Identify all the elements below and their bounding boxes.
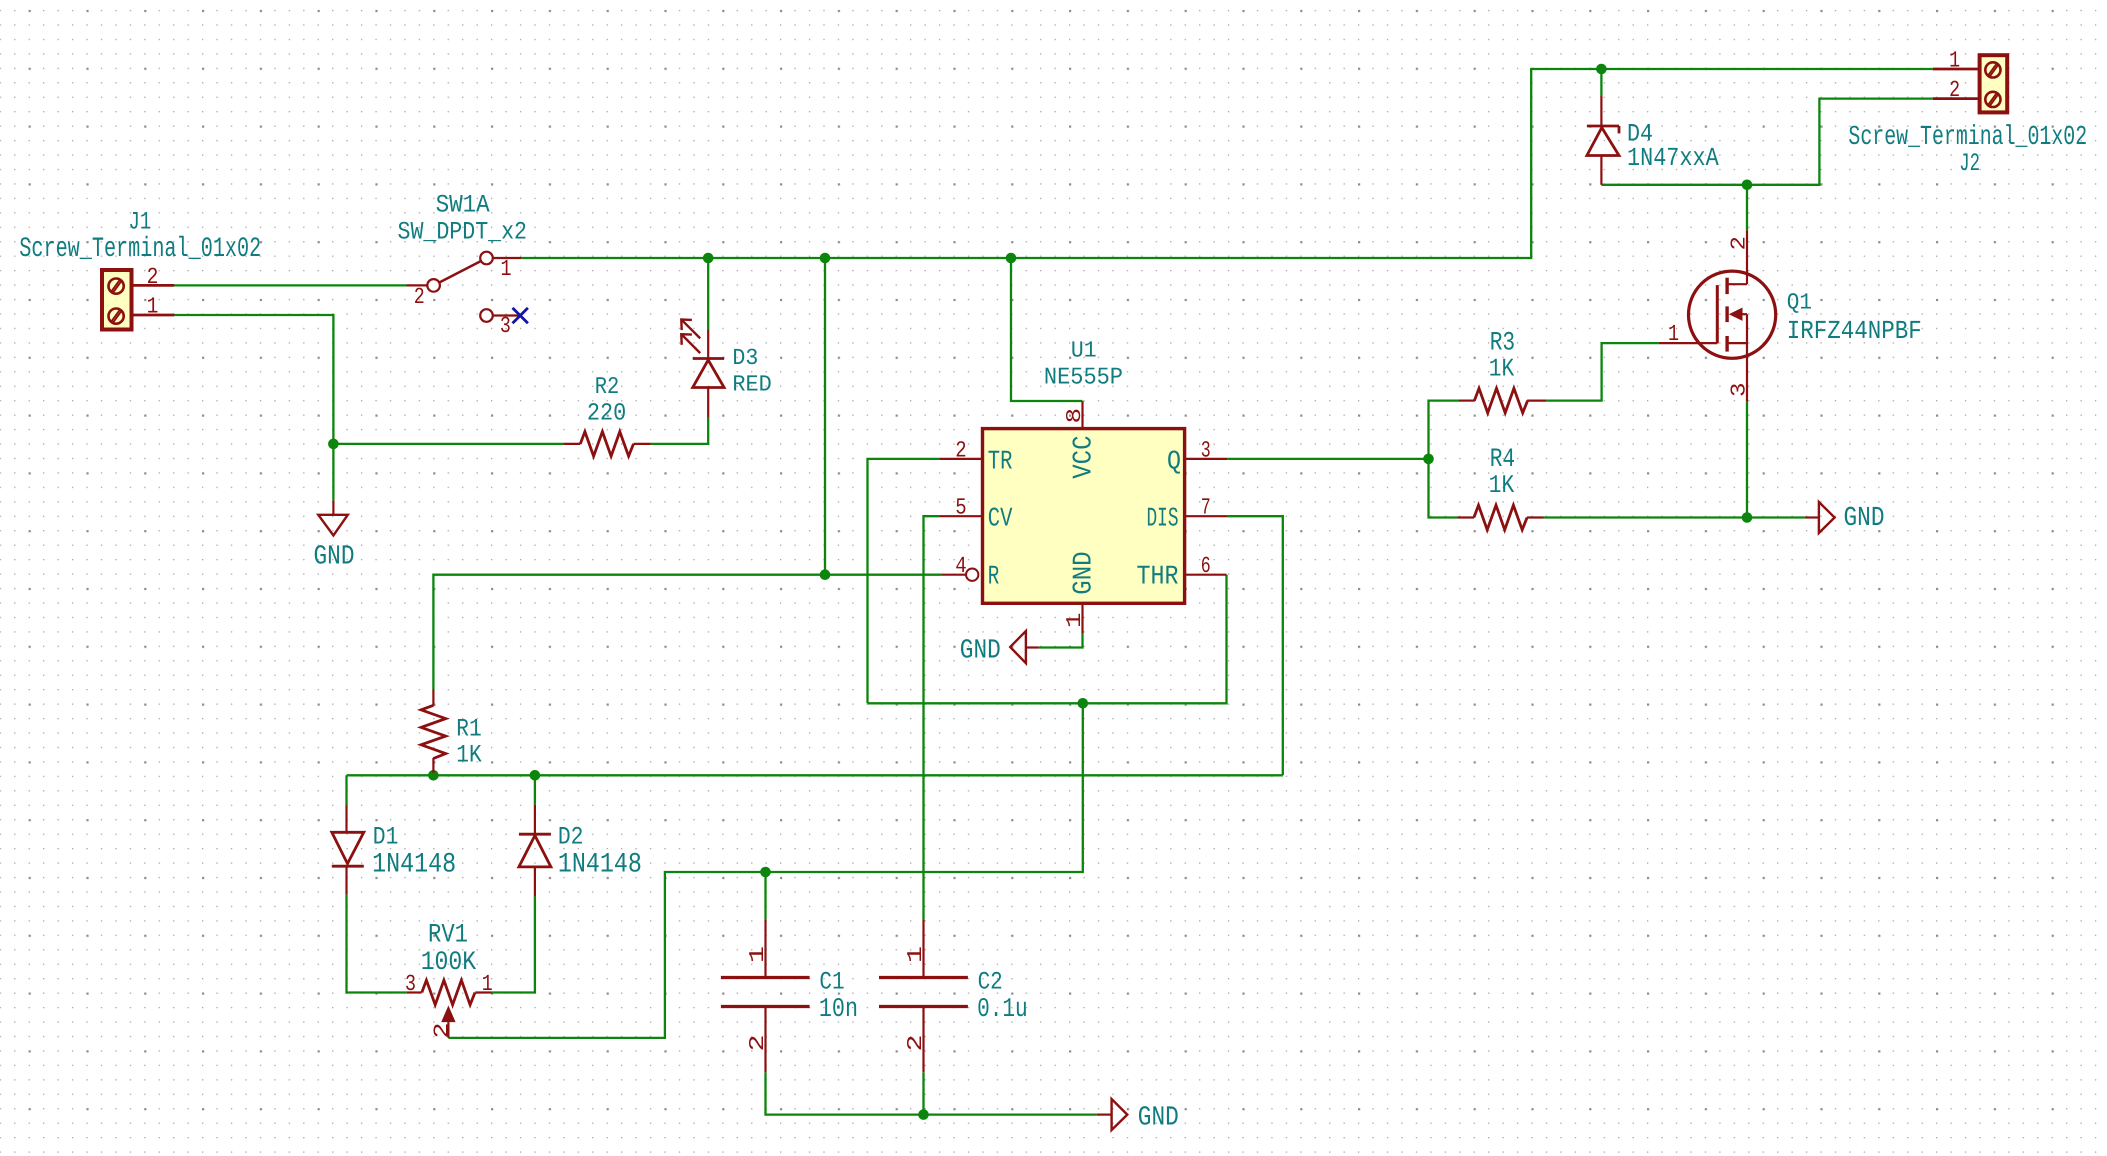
node junction bus-VCC bbox=[1006, 253, 1017, 264]
svg-text:2: 2 bbox=[905, 1035, 928, 1052]
resistor R2 bbox=[563, 432, 650, 457]
resistor R1 bbox=[421, 689, 446, 773]
svg-text:TR: TR bbox=[988, 447, 1013, 477]
wire C1 top leg bbox=[764, 872, 766, 920]
ground GND at Q1 source bbox=[1805, 502, 1835, 533]
svg-text:NE555P: NE555P bbox=[1044, 365, 1123, 392]
wire D1 top leg bbox=[345, 775, 347, 805]
svg-text:U1: U1 bbox=[1071, 338, 1097, 364]
wire R pin 4 to R1 leg bbox=[433, 575, 941, 689]
node junction C2 bottom bbox=[918, 1109, 929, 1120]
svg-text:D3: D3 bbox=[732, 345, 758, 371]
svg-text:1: 1 bbox=[1949, 48, 1960, 74]
wire R2 node down to GND bbox=[332, 444, 334, 500]
svg-text:5: 5 bbox=[955, 495, 966, 521]
node junction bus-D3 bbox=[703, 253, 714, 264]
svg-text:RED: RED bbox=[732, 371, 771, 397]
svg-text:8: 8 bbox=[1064, 408, 1087, 424]
screw terminal J1 bbox=[102, 270, 174, 330]
wire IC GND pin 1 bbox=[1039, 633, 1083, 647]
node junction D4 anode/Q1 drain bbox=[1742, 180, 1753, 191]
zener diode D4 bbox=[1587, 95, 1619, 184]
svg-text:Screw_Terminal_01x02: Screw_Terminal_01x02 bbox=[19, 234, 261, 265]
ground GND at C1/C2 bbox=[1097, 1099, 1128, 1130]
svg-text:C2: C2 bbox=[978, 968, 1003, 997]
svg-text:1: 1 bbox=[747, 946, 770, 963]
node junction Q1 source/R4 bbox=[1742, 512, 1753, 523]
wire R2 right to D3 anode bbox=[651, 417, 709, 444]
svg-text:D2: D2 bbox=[558, 823, 584, 852]
wire node down to R4 bbox=[1429, 459, 1458, 518]
svg-text:R: R bbox=[988, 562, 1000, 592]
svg-text:3: 3 bbox=[500, 313, 511, 339]
svg-text:2: 2 bbox=[747, 1035, 770, 1052]
svg-text:1N4148: 1N4148 bbox=[372, 849, 456, 880]
svg-text:1K: 1K bbox=[1489, 471, 1515, 500]
svg-text:R3: R3 bbox=[1490, 328, 1515, 358]
svg-text:RV1: RV1 bbox=[428, 920, 468, 950]
svg-text:1: 1 bbox=[482, 971, 493, 997]
U1 pin 1 GND bbox=[1081, 603, 1083, 633]
U1 pin 2 TR bbox=[939, 458, 982, 460]
node junction Rpin wire bbox=[820, 569, 831, 580]
wire DIS pin 7 down bbox=[1227, 516, 1283, 775]
U1 pin 3 Q bbox=[1185, 458, 1228, 460]
wire J1 pin2 to SW1A common bbox=[173, 284, 406, 286]
svg-text:10n: 10n bbox=[819, 995, 858, 1025]
svg-text:SW_DPDT_x2: SW_DPDT_x2 bbox=[398, 218, 528, 247]
wire C2 bottom leg bbox=[922, 1072, 924, 1114]
wire bus down to R pin net bbox=[824, 258, 826, 575]
wire Q1 drain up bbox=[1746, 185, 1748, 231]
svg-text:Q1: Q1 bbox=[1787, 290, 1812, 316]
svg-text:1: 1 bbox=[1668, 321, 1679, 347]
wire R1/D1/D2/DIS net bbox=[347, 774, 1283, 776]
svg-text:CV: CV bbox=[988, 505, 1013, 535]
wire D3 cathode to bus bbox=[707, 258, 709, 329]
svg-text:2: 2 bbox=[432, 1023, 455, 1039]
svg-text:IRFZ44NPBF: IRFZ44NPBF bbox=[1787, 316, 1922, 346]
resistor R4 bbox=[1458, 505, 1544, 530]
svg-text:1: 1 bbox=[147, 294, 159, 320]
wire D2 bottom to RV1 pin1 bbox=[492, 896, 535, 992]
wire Q pin 3 to R3/R4 node bbox=[1227, 458, 1428, 460]
node junction C1 top bbox=[760, 867, 771, 878]
wire J1 pin1 down to R2 node bbox=[173, 315, 333, 444]
svg-text:3: 3 bbox=[1729, 383, 1752, 398]
wire node up to R3 bbox=[1429, 401, 1460, 459]
svg-text:THR: THR bbox=[1137, 562, 1179, 592]
wire R3 to Q1 gate bbox=[1546, 343, 1659, 401]
svg-text:1K: 1K bbox=[1489, 355, 1515, 384]
node junction D4 top bbox=[1596, 64, 1607, 75]
svg-text:2: 2 bbox=[955, 437, 966, 463]
node junction bus-Rpin bbox=[820, 253, 831, 264]
svg-text:C1: C1 bbox=[819, 968, 844, 997]
svg-text:GND: GND bbox=[960, 636, 1001, 667]
LED D3 bbox=[681, 320, 724, 418]
svg-text:GND: GND bbox=[1844, 503, 1885, 534]
svg-text:1N47xxA: 1N47xxA bbox=[1627, 143, 1719, 173]
wire D1 bottom to RV1 pin3 bbox=[347, 894, 407, 992]
U1 pin 4 R bbox=[941, 569, 978, 581]
wire main bus SW1A to J2 pin1 bbox=[521, 69, 1933, 258]
switch SW1A bbox=[407, 252, 522, 322]
U1 pin 7 DIS bbox=[1185, 515, 1228, 517]
wire R2 left bbox=[333, 443, 563, 445]
svg-text:DIS: DIS bbox=[1147, 505, 1179, 535]
potentiometer RV1 bbox=[407, 980, 492, 1038]
wire D4 anode to J2 pin2 bbox=[1601, 99, 1933, 185]
svg-text:GND: GND bbox=[314, 542, 355, 573]
svg-text:6: 6 bbox=[1201, 553, 1211, 579]
node junction TR/THR/C1 bbox=[1078, 698, 1089, 709]
svg-text:R4: R4 bbox=[1490, 444, 1515, 474]
svg-text:Q: Q bbox=[1167, 447, 1181, 477]
wire bus to VCC pin 8 bbox=[1011, 258, 1083, 401]
svg-text:1: 1 bbox=[905, 946, 928, 963]
resistor R3 bbox=[1459, 388, 1546, 413]
svg-text:220: 220 bbox=[587, 401, 626, 428]
svg-text:100K: 100K bbox=[421, 947, 477, 977]
wire Q1 source down bbox=[1746, 402, 1748, 518]
svg-text:1N4148: 1N4148 bbox=[558, 849, 642, 880]
ground GND at IC pin1 bbox=[1010, 631, 1039, 663]
svg-text:GND: GND bbox=[1138, 1103, 1179, 1134]
ground GND at J1 bbox=[318, 500, 348, 535]
svg-text:R1: R1 bbox=[456, 715, 481, 744]
U1 pin 6 THR bbox=[1185, 574, 1227, 576]
svg-text:SW1A: SW1A bbox=[436, 191, 490, 220]
svg-text:1: 1 bbox=[501, 256, 512, 282]
svg-text:3: 3 bbox=[405, 971, 416, 997]
svg-text:GND: GND bbox=[1070, 551, 1100, 594]
svg-text:2: 2 bbox=[414, 284, 425, 310]
wire D4 cathode up bbox=[1600, 69, 1602, 95]
wire TR pin 2 loop bbox=[868, 459, 940, 703]
svg-text:J2: J2 bbox=[1959, 149, 1980, 178]
svg-text:1K: 1K bbox=[456, 741, 481, 770]
transistor Q1 bbox=[1659, 230, 1776, 401]
node junction R1 bottom bbox=[428, 770, 439, 781]
wire CV pin 5 down to C2 bbox=[924, 516, 940, 919]
wire R4 right to GND bbox=[1544, 516, 1805, 518]
node junction Q output bbox=[1423, 454, 1434, 465]
screw terminal J2 bbox=[1933, 55, 2007, 112]
U1 pin 5 CV bbox=[939, 515, 982, 517]
svg-text:VCC: VCC bbox=[1070, 436, 1100, 479]
wire C1 bottom to GND bbox=[766, 1072, 1097, 1114]
svg-text:7: 7 bbox=[1201, 495, 1211, 521]
svg-text:1: 1 bbox=[1064, 613, 1087, 629]
wire TR/THR node down to RV1 wiper bbox=[448, 703, 1082, 1038]
wire D2 top leg bbox=[534, 775, 536, 804]
svg-text:D1: D1 bbox=[373, 823, 399, 852]
op-amp U1 body bbox=[983, 429, 1185, 604]
svg-text:2: 2 bbox=[147, 264, 159, 290]
svg-text:R2: R2 bbox=[595, 374, 620, 401]
svg-text:4: 4 bbox=[955, 553, 966, 579]
svg-text:3: 3 bbox=[1201, 437, 1211, 463]
node junction D2 top bbox=[530, 770, 541, 781]
svg-text:2: 2 bbox=[1729, 236, 1752, 251]
diode D2 bbox=[519, 805, 551, 897]
capacitor C1 bbox=[721, 920, 810, 1073]
U1 pin 8 VCC bbox=[1081, 401, 1083, 429]
svg-text:J1: J1 bbox=[129, 207, 152, 236]
svg-text:0.1u: 0.1u bbox=[977, 995, 1028, 1025]
node junction R2/J1/GND bbox=[328, 439, 339, 450]
wire THR pin 6 loop bbox=[868, 575, 1227, 704]
svg-text:2: 2 bbox=[1949, 77, 1960, 103]
diode D1 bbox=[332, 805, 364, 894]
no-connect flag SW1A pin3 bbox=[513, 308, 528, 323]
capacitor C2 bbox=[879, 920, 968, 1073]
